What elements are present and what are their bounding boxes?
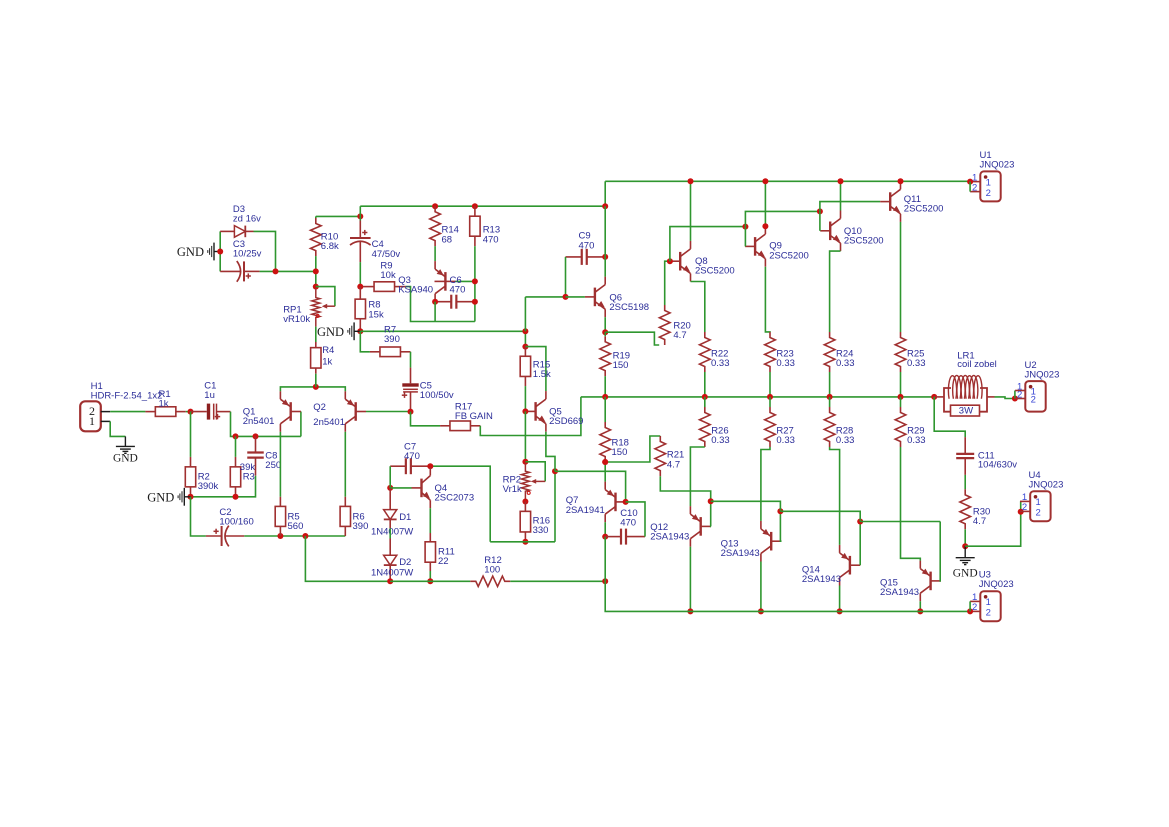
transistor Q14 2SA1943 xyxy=(849,556,851,575)
junction Q15 collector rail node xyxy=(917,608,923,614)
resistor R5 xyxy=(279,497,281,507)
wire Q9 collector up xyxy=(764,181,766,226)
label R20 xyxy=(673,321,690,342)
wire R13 bottom wire xyxy=(474,246,476,321)
svg-text:2SA1943: 2SA1943 xyxy=(650,532,689,543)
wire emitter rail xyxy=(316,387,346,391)
svg-text:0.33: 0.33 xyxy=(711,435,730,446)
label R4 xyxy=(322,345,334,368)
wire Q9 base rail up xyxy=(745,211,820,226)
svg-text:HDR-F-2.54_1x2: HDR-F-2.54_1x2 xyxy=(91,391,163,402)
svg-text:GND: GND xyxy=(113,453,138,465)
label Q5 xyxy=(549,407,583,428)
transistor Q9 2SC5200 xyxy=(754,237,756,256)
svg-text:GND: GND xyxy=(317,325,344,339)
junction R23 rail node xyxy=(767,394,773,400)
transistor Q8 2SC5200 xyxy=(679,252,681,271)
resistor R9 xyxy=(363,286,374,288)
junction RP2 top node xyxy=(522,459,528,465)
wire Q10 base rail up xyxy=(820,202,880,212)
junction R8 row / R15 node xyxy=(522,328,528,334)
svg-text:390: 390 xyxy=(353,521,369,532)
wire R21 bottom jog xyxy=(660,476,710,501)
junction C2 row branch node xyxy=(302,533,308,539)
svg-text:0.33: 0.33 xyxy=(776,435,795,446)
svg-text:250: 250 xyxy=(265,460,281,471)
label R10 xyxy=(321,231,339,252)
junction R22 rail node xyxy=(702,394,708,400)
resistor R18 xyxy=(600,422,611,462)
resistor R30 xyxy=(960,489,971,529)
junction Q14 collector rail node xyxy=(837,608,843,614)
label Q1 xyxy=(243,407,275,428)
svg-text:D2: D2 xyxy=(399,557,411,568)
label R9 xyxy=(380,260,396,281)
svg-text:Q2: Q2 xyxy=(313,402,326,413)
wire C7 left down xyxy=(389,466,391,488)
wire Q8 base up xyxy=(670,227,746,262)
label R24 xyxy=(836,348,855,369)
svg-text:330: 330 xyxy=(533,525,549,536)
svg-text:2n5401: 2n5401 xyxy=(243,416,275,427)
svg-text:GND: GND xyxy=(177,245,204,259)
svg-text:10/25v: 10/25v xyxy=(233,249,262,260)
wire Q8 collector up xyxy=(690,181,692,241)
label Q10 xyxy=(844,226,884,247)
svg-text:1k: 1k xyxy=(322,357,332,368)
resistor R11 xyxy=(429,533,431,542)
svg-text:2SA1943: 2SA1943 xyxy=(880,587,919,598)
junction U3 pin2 node xyxy=(967,608,973,614)
svg-text:1u: 1u xyxy=(204,390,215,401)
junction C6 left node xyxy=(432,299,438,305)
wire Q6 emitter down xyxy=(604,317,606,332)
label R11 xyxy=(438,547,455,568)
junction Q12 base node xyxy=(708,498,714,504)
svg-text:15k: 15k xyxy=(368,309,384,320)
wire R1 to node xyxy=(186,411,191,413)
svg-text:1: 1 xyxy=(1036,497,1041,508)
svg-text:0.33: 0.33 xyxy=(836,435,855,446)
svg-text:4.7: 4.7 xyxy=(673,330,686,341)
label Q15 xyxy=(880,577,919,598)
label R26 xyxy=(711,426,730,447)
junction Q4 base node xyxy=(387,485,393,491)
connector U2 JNQ023 xyxy=(1025,381,1045,412)
wire R23 bottom xyxy=(769,372,771,397)
svg-text:100/50v: 100/50v xyxy=(420,390,454,401)
junction C8 top node xyxy=(253,433,259,439)
svg-text:D1: D1 xyxy=(399,512,411,523)
label Q6 xyxy=(609,292,649,313)
label H1 xyxy=(91,381,163,402)
svg-text:0.33: 0.33 xyxy=(907,358,926,369)
label Q12 xyxy=(650,522,689,543)
resistor R14 xyxy=(430,206,441,246)
svg-text:2: 2 xyxy=(1022,502,1027,513)
junction R19 bottom node xyxy=(602,394,608,400)
junction R16 bottom node xyxy=(522,539,528,545)
junction R11 bottom node xyxy=(427,578,433,584)
svg-text:2: 2 xyxy=(986,188,991,199)
label R7 xyxy=(384,325,400,346)
transistor Q3 KSA940 xyxy=(444,272,446,291)
wire Q8 emitter jog xyxy=(691,282,705,333)
wire RP1 to R4 xyxy=(315,327,317,342)
label Q9 xyxy=(769,241,809,262)
ground GND (input) xyxy=(124,436,126,446)
label R15 xyxy=(533,360,551,381)
wire Q9 emitter jog xyxy=(765,267,770,332)
wire C4 top corner xyxy=(359,206,361,220)
label C2 xyxy=(219,507,253,528)
svg-text:390: 390 xyxy=(384,334,400,345)
junction R1/C1/R2 node xyxy=(188,409,194,415)
label Q7 xyxy=(566,495,605,516)
label C4 xyxy=(372,239,401,260)
capacitor C6 xyxy=(435,301,451,303)
wire base rail up to Q1 base xyxy=(300,412,302,437)
label R28 xyxy=(836,426,855,447)
svg-text:6.8k: 6.8k xyxy=(321,241,339,252)
junction R25 rail node xyxy=(898,394,904,400)
junction Q10 base node xyxy=(817,208,823,214)
wire Q4 emitter down xyxy=(429,508,431,533)
resistor R4 xyxy=(315,342,317,348)
svg-text:2SC2073: 2SC2073 xyxy=(435,493,475,504)
junction R14 top node xyxy=(432,203,438,209)
wire C3 right wire xyxy=(260,270,316,272)
svg-text:104/630v: 104/630v xyxy=(978,460,1017,471)
svg-text:JNQ023: JNQ023 xyxy=(980,160,1015,171)
label C1 xyxy=(204,381,216,402)
wire R16 left up to Q4 xyxy=(430,466,490,542)
svg-text:2SC5198: 2SC5198 xyxy=(609,302,649,313)
transistor Q5 2SD669 xyxy=(534,402,536,421)
svg-text:100: 100 xyxy=(484,565,500,576)
wire R14 bottom wire xyxy=(434,246,436,261)
svg-text:0.33: 0.33 xyxy=(836,358,855,369)
junction R10 top node xyxy=(357,213,363,219)
wire Q6 collector up xyxy=(604,257,606,277)
label RP2 xyxy=(503,474,522,495)
wire R30 bottom xyxy=(964,529,966,546)
transistor Q10 2SC5200 xyxy=(829,222,831,241)
label C7 xyxy=(404,441,420,462)
svg-text:560: 560 xyxy=(288,521,304,532)
label C10 xyxy=(620,508,637,528)
resistor R28 xyxy=(829,397,831,407)
svg-text:0.33: 0.33 xyxy=(711,358,730,369)
junction GND C3 node xyxy=(217,249,223,255)
junction C6 right node xyxy=(472,299,478,305)
wire C8 bottom wire xyxy=(191,476,256,497)
svg-text:470: 470 xyxy=(579,240,595,251)
diode D1 1N4007W xyxy=(389,488,391,510)
wire LR1 to U2 xyxy=(995,397,1015,399)
svg-text:2SC5200: 2SC5200 xyxy=(769,250,809,261)
transistor Q12 2SA1943 xyxy=(700,517,702,536)
svg-text:3W: 3W xyxy=(959,406,973,417)
wire C11 to R30 xyxy=(964,475,966,489)
wire lower rail to neg xyxy=(605,581,970,611)
label R12 xyxy=(484,555,501,576)
wire Q12 base up xyxy=(710,501,712,526)
wire Q6 base rail xyxy=(525,296,565,298)
wire base rail Q12-Q13 xyxy=(711,501,781,511)
svg-text:470: 470 xyxy=(404,451,420,462)
wire C4 bottom wire xyxy=(359,262,361,287)
svg-text:GND: GND xyxy=(147,491,174,505)
resistor R19 xyxy=(604,332,606,336)
wire zener rail left xyxy=(219,231,221,271)
svg-text:390k: 390k xyxy=(198,481,219,492)
resistor R7 xyxy=(370,351,380,353)
svg-text:JNQ023: JNQ023 xyxy=(1029,480,1064,491)
label R16 xyxy=(533,516,550,537)
transistor Q4 2SC2073 xyxy=(420,479,422,498)
transistor Q7 2SA1941 xyxy=(614,493,616,512)
label C3 xyxy=(233,239,262,260)
label D3 xyxy=(233,204,261,225)
wire C10 right up xyxy=(626,502,645,537)
label R19 xyxy=(613,351,630,372)
junction R13 top node xyxy=(472,203,478,209)
resistor R12 xyxy=(470,576,510,586)
junction RP2 bottom node xyxy=(522,499,528,505)
resistor R22 xyxy=(700,332,711,372)
label C11 xyxy=(978,450,1017,470)
label Q2 xyxy=(313,402,345,428)
junction Q6 base node xyxy=(563,294,569,300)
junction LR1 left node xyxy=(931,394,937,400)
wire base rail Q13-Q14 xyxy=(780,511,860,521)
label R18 xyxy=(612,437,629,458)
wire Q10 emitter jog xyxy=(830,251,841,332)
junction Q9 base node xyxy=(742,224,748,230)
junction Q9 collector rail node xyxy=(762,178,768,184)
potentiometer RP1 vR10k xyxy=(312,289,320,327)
diode D2 1N4007W xyxy=(389,539,391,556)
wire R10 bottom wire xyxy=(315,256,317,287)
svg-text:2SC5200: 2SC5200 xyxy=(844,236,884,247)
junction emitter rail node xyxy=(313,384,319,390)
svg-text:2: 2 xyxy=(972,182,977,193)
svg-text:150: 150 xyxy=(613,360,629,371)
resistor R1 xyxy=(145,411,155,413)
wire Q7 collector down xyxy=(604,522,606,536)
svg-text:2: 2 xyxy=(986,608,991,619)
junction R30 bottom node xyxy=(962,543,968,549)
capacitor C1 xyxy=(191,411,207,413)
wire R28 to Q14 emitter xyxy=(830,447,840,545)
wire lower rail left xyxy=(390,580,470,582)
label R14 xyxy=(442,225,459,246)
wire Q11 collector stub xyxy=(900,180,902,182)
wire R4 bottom wire xyxy=(315,374,317,387)
junction U1 pin1 node xyxy=(967,179,973,185)
svg-text:Vr1k: Vr1k xyxy=(503,484,522,495)
junction Q14 base node xyxy=(857,519,863,525)
junction R2/GND node xyxy=(188,494,194,500)
resistor R3 xyxy=(235,457,237,467)
wire H1 pin1 to GND xyxy=(110,421,125,436)
junction lower rail node xyxy=(602,578,608,584)
wire C6 left branch down xyxy=(434,302,436,322)
wire Q6 base vert xyxy=(524,297,526,331)
wire R10 top wire xyxy=(316,215,361,217)
wire Q15 collector down xyxy=(919,601,921,611)
wire Q7 collector to rail xyxy=(604,537,606,582)
label U3 xyxy=(979,569,1014,590)
resistor R13 xyxy=(474,206,476,216)
svg-text:KSA940: KSA940 xyxy=(398,285,433,296)
svg-text:1.5k: 1.5k xyxy=(533,369,551,380)
label C6 xyxy=(450,275,466,296)
wire R20 top jog xyxy=(665,261,670,305)
junction Q6 emitter node xyxy=(602,329,608,335)
wire lower rail right xyxy=(510,580,605,582)
wire Q2 base wire xyxy=(366,411,411,413)
junction Q3 base node xyxy=(472,278,478,284)
label D2 xyxy=(399,557,411,568)
wire Q1 emitter up xyxy=(280,387,315,391)
svg-text:47/50v: 47/50v xyxy=(372,249,401,260)
label U2 xyxy=(1025,360,1060,381)
label R17 xyxy=(455,402,493,423)
wire Q6 base corner xyxy=(524,331,526,346)
junction Q11 collector rail node xyxy=(898,178,904,184)
junction Q13 base node xyxy=(777,508,783,514)
svg-text:coil zobel: coil zobel xyxy=(957,359,997,370)
wire R16 right up xyxy=(554,471,556,542)
label R25 xyxy=(907,348,926,369)
wire R27 to Q13 emitter xyxy=(761,447,770,521)
junction C5 bottom node xyxy=(408,409,414,415)
wire R24 bottom xyxy=(829,372,831,397)
wire R8 node to R7 xyxy=(360,331,370,352)
junction V+ rail2 node xyxy=(602,203,608,209)
ground GND (C3) xyxy=(214,251,220,253)
junction Q7 emitter node xyxy=(602,459,608,465)
wire R18 top wire xyxy=(604,397,606,422)
capacitor C7 xyxy=(390,465,406,467)
svg-text:2: 2 xyxy=(1031,395,1036,406)
resistor R15 xyxy=(524,347,526,357)
inductor LR1 coil zobel xyxy=(934,396,944,398)
wire U2 pin jumper xyxy=(1014,391,1016,399)
transistor Q2 2n5401 xyxy=(355,402,357,421)
wire R19 bottom wire xyxy=(604,376,606,397)
wire H1 pin2 to R1 xyxy=(110,411,145,413)
wire zobel branch xyxy=(934,397,965,437)
junction Q13 collector rail node xyxy=(758,608,764,614)
potentiometer RP2 Vr1k xyxy=(521,464,529,500)
junction Q8 collector rail node xyxy=(688,178,694,184)
junction Q12 collector rail node xyxy=(687,608,693,614)
connector U1 JNQ023 xyxy=(980,171,1000,201)
svg-text:vR10k: vR10k xyxy=(283,314,310,325)
diode D3 zd16v xyxy=(220,230,234,232)
transistor Q15 2SA1943 xyxy=(929,572,931,591)
wire Q12 collector down xyxy=(689,547,691,612)
resistor R23 xyxy=(765,332,776,372)
label R5 xyxy=(288,512,304,532)
resistor R20 xyxy=(659,305,670,345)
label R29 xyxy=(907,426,926,447)
label Q4 xyxy=(435,483,475,504)
capacitor C11 xyxy=(964,437,966,454)
label R2 xyxy=(198,472,219,493)
label C5 xyxy=(420,380,454,401)
svg-text:FB GAIN: FB GAIN xyxy=(455,411,493,422)
label U4 xyxy=(1029,470,1064,491)
resistor R10 xyxy=(315,216,317,218)
wire R2 top wire xyxy=(190,412,192,457)
junction C4/R9/R8 node xyxy=(357,284,363,290)
junction R3 bottom node xyxy=(233,494,239,500)
label R8 xyxy=(368,300,384,321)
label R13 xyxy=(483,225,500,246)
ground GND (zobel) xyxy=(964,546,966,558)
wire GND row to Q6 base column xyxy=(360,330,525,332)
svg-text:0.33: 0.33 xyxy=(907,435,926,446)
svg-text:470: 470 xyxy=(620,517,636,528)
svg-text:4.7: 4.7 xyxy=(973,516,986,527)
svg-text:2SA1943: 2SA1943 xyxy=(721,548,760,559)
label Q8 xyxy=(695,256,735,277)
wire Q11 collector up xyxy=(900,180,902,182)
ground GND (R2) xyxy=(184,496,190,498)
wire Q4 base wire xyxy=(390,487,411,489)
svg-text:470: 470 xyxy=(450,285,466,296)
svg-text:2SC5200: 2SC5200 xyxy=(695,265,735,276)
label R23 xyxy=(776,348,795,369)
wire U1 pin jumper xyxy=(969,182,971,192)
label R27 xyxy=(776,426,795,447)
wire base rail y436 xyxy=(236,435,301,437)
label Q14 xyxy=(802,565,841,586)
svg-text:2SC5200: 2SC5200 xyxy=(904,203,944,214)
resistor R24 xyxy=(824,332,835,372)
label LR1 xyxy=(957,351,997,371)
label R6 xyxy=(353,512,369,532)
wire C2 row to R6 xyxy=(244,535,345,537)
wire Q14 collector down xyxy=(839,586,841,612)
wire V+ vert to C9 xyxy=(604,206,606,257)
capacitor C3 xyxy=(220,270,240,272)
wire R17 right corner xyxy=(480,397,581,436)
wire GND node down to C2 row xyxy=(191,497,206,536)
junction Q5 base node xyxy=(522,408,528,414)
capacitor C2 xyxy=(206,535,222,537)
label C8 xyxy=(265,451,281,472)
svg-text:4.7: 4.7 xyxy=(667,459,680,470)
capacitor C9 xyxy=(566,256,582,258)
junction R15 top node xyxy=(522,344,528,350)
capacitor C10 xyxy=(605,536,621,538)
svg-text:2SD669: 2SD669 xyxy=(549,416,583,427)
wire Q6 base wire xyxy=(566,296,585,298)
svg-text:150: 150 xyxy=(612,447,628,458)
wire top rail 2 xyxy=(360,205,605,207)
svg-text:1: 1 xyxy=(986,177,991,188)
label D1 xyxy=(399,512,411,523)
connector U3 JNQ023 xyxy=(980,591,1000,621)
junction R5 bottom node xyxy=(277,533,283,539)
wire R30 to U4 xyxy=(965,501,1021,546)
wire Q14 base up xyxy=(859,522,861,566)
